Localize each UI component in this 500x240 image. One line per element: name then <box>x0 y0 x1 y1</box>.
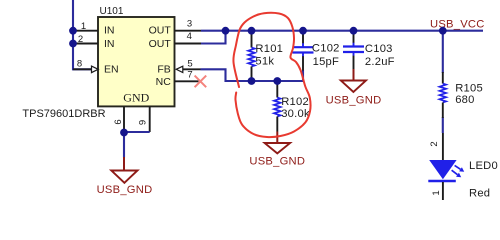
svg-text:USB_GND: USB_GND <box>326 95 382 107</box>
svg-text:15pF: 15pF <box>313 56 340 68</box>
svg-text:FB: FB <box>157 64 170 76</box>
pin 9 stub <box>149 106 151 132</box>
svg-text:LED0: LED0 <box>469 160 498 172</box>
svg-text:R102: R102 <box>281 96 309 108</box>
svg-text:1: 1 <box>81 21 86 32</box>
ground symbol under IC (USB_GND) <box>97 157 153 196</box>
wire: FB net from pin5 to C102 <box>201 69 304 81</box>
pin 3 stub <box>175 30 202 32</box>
resistor R105 <box>440 72 483 118</box>
svg-text:R105: R105 <box>455 83 483 95</box>
svg-text:2: 2 <box>429 141 440 146</box>
junction node: R101 bottom on FB net <box>248 77 256 85</box>
svg-text:30.0k: 30.0k <box>281 108 310 120</box>
svg-text:8: 8 <box>77 58 82 69</box>
svg-text:OUT: OUT <box>149 38 172 50</box>
svg-text:GND: GND <box>123 91 149 105</box>
pin 8 stub with input arrow <box>73 68 92 70</box>
svg-text:IN: IN <box>104 25 115 37</box>
junction node: C103 top on bus <box>350 27 358 35</box>
svg-text:1: 1 <box>431 190 442 195</box>
wire: GND under IC <box>124 132 150 158</box>
svg-text:USB_GND: USB_GND <box>249 156 305 168</box>
svg-text:Red: Red <box>469 187 490 199</box>
junction node: input pin1 <box>69 27 77 35</box>
svg-text:51k: 51k <box>255 56 274 68</box>
svg-text:C102: C102 <box>312 43 340 55</box>
no-connect X on pin 7 <box>195 76 207 88</box>
ground symbol under C103 (USB_GND) <box>326 69 382 107</box>
svg-text:NC: NC <box>156 76 172 88</box>
pin 6 stub <box>123 106 125 132</box>
svg-text:R101: R101 <box>255 43 283 55</box>
svg-text:EN: EN <box>104 63 119 75</box>
svg-text:USB_GND: USB_GND <box>97 184 153 196</box>
pin 1 stub <box>73 30 98 32</box>
annotation: hand-drawn red circle around R101/R102 <box>233 13 310 137</box>
svg-text:C103: C103 <box>365 43 393 55</box>
junction node: input pin2 <box>69 40 77 48</box>
LED LED0 <box>428 133 498 200</box>
svg-text:2.2uF: 2.2uF <box>365 56 395 68</box>
junction node: USB_VCC / R105 on bus <box>439 27 447 35</box>
svg-text:7: 7 <box>187 70 192 81</box>
svg-text:2: 2 <box>78 34 83 45</box>
wire: pin4 to bus riser <box>201 31 226 44</box>
junction node: GND under IC <box>120 129 128 137</box>
wire: USB_VCC down to R105 <box>442 31 444 73</box>
svg-text:TPS79601DRBR: TPS79601DRBR <box>22 108 105 120</box>
junction node: C102 top on bus <box>299 27 307 35</box>
pin 7 stub (NC) <box>175 80 199 82</box>
svg-text:IN: IN <box>104 38 115 50</box>
svg-text:OUT: OUT <box>149 25 172 37</box>
svg-text:6: 6 <box>113 119 124 124</box>
svg-text:U101: U101 <box>100 6 124 17</box>
resistor R101 <box>248 32 283 82</box>
IC U101 body <box>98 17 175 106</box>
wire: VOUT top bus <box>201 30 483 32</box>
junction node: pin4 riser on bus <box>222 27 230 35</box>
pin 5 stub (FB) with arrow <box>176 66 183 72</box>
wire: input net vertical from top edge to EN corner <box>73 0 92 69</box>
svg-text:9: 9 <box>138 120 149 125</box>
svg-text:3: 3 <box>187 19 192 30</box>
capacitor C102 <box>293 32 340 71</box>
resistor R102 <box>274 81 310 132</box>
pin 2 stub <box>73 43 98 45</box>
junction node: R102 top on FB net <box>273 77 281 85</box>
pin 4 stub <box>175 43 202 45</box>
ground symbol under R102 (USB_GND) <box>249 132 305 168</box>
capacitor C103 <box>343 32 395 70</box>
wire: R105 to LED <box>442 117 444 133</box>
svg-text:5: 5 <box>187 59 192 70</box>
junction node: R101 top on bus <box>248 27 256 35</box>
svg-text:USB_VCC: USB_VCC <box>430 18 485 30</box>
svg-text:680: 680 <box>455 94 474 106</box>
svg-text:4: 4 <box>187 31 192 42</box>
